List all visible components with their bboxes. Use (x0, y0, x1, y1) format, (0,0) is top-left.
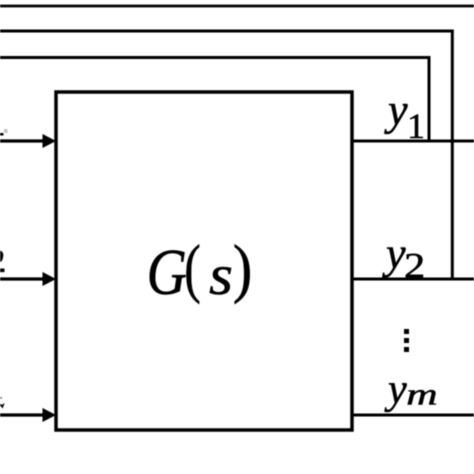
svg-text:(: ( (184, 231, 200, 305)
svg-text:y: y (382, 229, 406, 278)
svg-text:G: G (147, 237, 187, 309)
svg-text:1: 1 (407, 106, 425, 146)
svg-text:s: s (209, 243, 233, 306)
svg-text:2: 2 (404, 245, 425, 285)
svg-text:m: m (406, 377, 437, 412)
svg-text:): ) (233, 232, 253, 305)
svg-text:y: y (384, 86, 408, 135)
svg-text:y: y (384, 367, 407, 413)
